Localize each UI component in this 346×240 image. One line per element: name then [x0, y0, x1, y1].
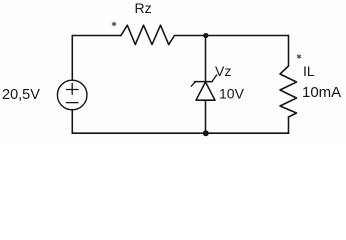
- voltage source minus sign: [67, 102, 79, 104]
- wire right vertical bottom: [288, 117, 290, 133]
- svg-text:Rz: Rz: [135, 0, 152, 16]
- zener bar right tick: [212, 75, 217, 82]
- probe marker right asterisk: [297, 54, 301, 59]
- zener diode D1 triangle: [196, 82, 215, 100]
- voltage source V1 circle: [57, 80, 87, 110]
- voltage source plus sign: [71, 83, 73, 94]
- wire bottom rail: [72, 132, 288, 134]
- svg-text:IL: IL: [303, 63, 315, 79]
- zener diode D1 cathode bar: [195, 81, 213, 83]
- zener bar left tick: [191, 82, 195, 87]
- wire top rail right segment: [175, 35, 289, 37]
- svg-text:20,5V: 20,5V: [2, 87, 40, 103]
- svg-text:10mA: 10mA: [302, 84, 341, 101]
- svg-text:10V: 10V: [219, 86, 245, 102]
- svg-text:Vz: Vz: [215, 63, 231, 79]
- wire left vertical bottom: [71, 110, 73, 133]
- node junction dot top: [203, 33, 208, 38]
- probe marker left asterisk: [112, 22, 116, 27]
- wire zener bottom: [205, 100, 207, 133]
- resistor RL (load): [280, 66, 297, 117]
- wire top rail left segment: [72, 35, 121, 37]
- resistor Rz: [121, 25, 175, 44]
- node junction dot bottom: [203, 130, 209, 136]
- wire left vertical top: [71, 36, 73, 81]
- wire right vertical top: [288, 36, 290, 67]
- wire zener top: [205, 36, 207, 82]
